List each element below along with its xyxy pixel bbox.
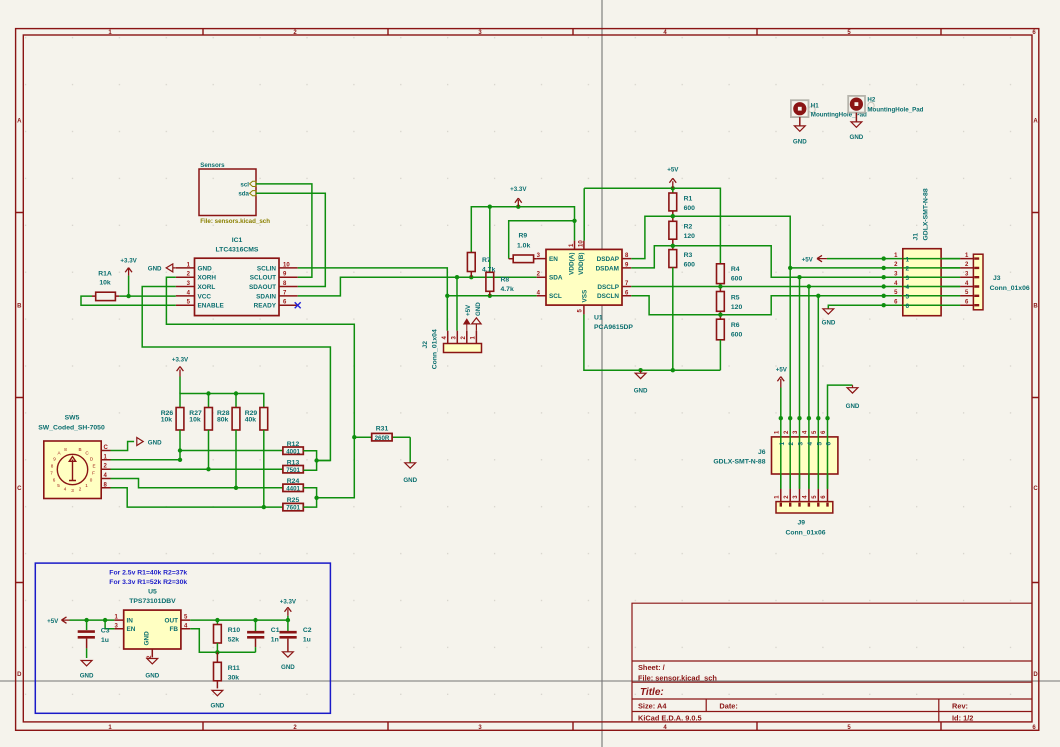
J1 pin numbers xyxy=(894,253,898,306)
connector J6 GDLX-SMT-N-88 body xyxy=(713,437,838,474)
resistor R28 xyxy=(217,408,240,488)
svg-text:GND: GND xyxy=(822,320,836,327)
svg-text:R13: R13 xyxy=(287,459,300,466)
ground GND below C2 xyxy=(281,652,295,671)
wire DSDAM net (U1 pin9 to J1 pin3 and J6 col3) xyxy=(631,246,960,489)
resistor R3 xyxy=(669,250,695,269)
svg-text:+3.3V: +3.3V xyxy=(172,357,189,364)
svg-text:4.7k: 4.7k xyxy=(501,286,514,293)
resistor R7 xyxy=(467,253,495,278)
svg-text:52k: 52k xyxy=(228,636,240,643)
wire rows through J1 body to J3 xyxy=(903,259,960,306)
svg-text:PCA9615DP: PCA9615DP xyxy=(594,324,633,331)
svg-text:SCLOUT: SCLOUT xyxy=(250,275,276,282)
svg-text:Conn_01x06: Conn_01x06 xyxy=(990,285,1030,292)
U5 pin numbers xyxy=(114,615,188,659)
svg-text:EN: EN xyxy=(549,256,558,263)
svg-text:scl: scl xyxy=(240,181,249,188)
svg-text:R3: R3 xyxy=(684,252,693,259)
svg-text:DSDAP: DSDAP xyxy=(597,256,620,263)
svg-text:R24: R24 xyxy=(287,478,300,485)
wire R1A left to ENABLE xyxy=(81,296,176,305)
U1 bottom pin stub VSS xyxy=(583,305,585,314)
regulator U5 TPS73101DBV body xyxy=(124,588,181,649)
svg-text:R5: R5 xyxy=(731,294,740,301)
wire R6 bottom xyxy=(719,340,721,370)
IC U1 PCA9615DP body xyxy=(546,249,633,330)
svg-text:1: 1 xyxy=(85,483,88,488)
svg-text:H2: H2 xyxy=(867,97,875,104)
svg-text:GND: GND xyxy=(403,477,417,484)
SW5 rotary ring letters xyxy=(50,447,95,493)
wire SDAIN net (IC1 pin7 to U1 SDA and J2 pin3) xyxy=(298,277,537,331)
junction R26/R12 xyxy=(178,448,182,452)
ground GND below R11 xyxy=(211,690,225,709)
J3 pin numbers xyxy=(965,253,969,306)
junction dots at J1 pins xyxy=(882,256,886,260)
wire U5 OUT rail xyxy=(190,619,288,621)
H1 pin stub and GND xyxy=(793,117,807,145)
resistor R6 xyxy=(717,319,743,340)
capacitor C3 xyxy=(78,620,110,658)
svg-text:+5V: +5V xyxy=(465,304,472,316)
svg-text:E: E xyxy=(92,464,95,469)
svg-text:IC1: IC1 xyxy=(232,237,243,244)
svg-text:J1: J1 xyxy=(913,233,920,241)
svg-text:10k: 10k xyxy=(161,416,173,423)
resistor R9 xyxy=(509,233,537,263)
J6 pin numbers (rotated) xyxy=(775,430,828,434)
svg-text:SW5: SW5 xyxy=(65,415,80,422)
wire SW5 pin1 to R26 xyxy=(111,459,181,461)
gray axis vertical xyxy=(601,0,603,747)
svg-text:R25: R25 xyxy=(287,497,300,504)
svg-text:1n: 1n xyxy=(271,636,279,643)
wire columns through J6 body to J9 xyxy=(781,436,828,489)
svg-text:LTC4316CMS: LTC4316CMS xyxy=(216,247,259,254)
ground GND at J1 pin6 xyxy=(822,309,836,327)
svg-text:R1: R1 xyxy=(684,195,693,202)
junction at R1A/+3.3V xyxy=(126,294,130,298)
svg-text:VDD(B): VDD(B) xyxy=(578,253,585,275)
svg-text:4401: 4401 xyxy=(286,485,300,492)
U1 pin numbers xyxy=(537,240,629,313)
junction R31 branch xyxy=(352,435,356,439)
resistor R4 xyxy=(717,264,743,292)
svg-text:H1: H1 xyxy=(811,103,819,110)
svg-text:1u: 1u xyxy=(101,637,109,644)
svg-text:For 2.5v R1=40k R2=37k: For 2.5v R1=40k R2=37k xyxy=(109,570,187,577)
ground GND at J2 pin1 (up arrow) xyxy=(472,302,482,331)
svg-text:1: 1 xyxy=(906,256,910,263)
svg-text:IN: IN xyxy=(127,618,134,625)
ground GND below U1 xyxy=(634,370,648,394)
power +3.3V at regulator output xyxy=(280,599,297,621)
svg-text:GND: GND xyxy=(80,673,94,680)
mounting hole H1 xyxy=(791,100,867,118)
svg-text:4: 4 xyxy=(906,284,910,291)
svg-text:OUT: OUT xyxy=(165,618,179,625)
svg-text:4001: 4001 xyxy=(286,448,300,455)
svg-text:30k: 30k xyxy=(228,674,240,681)
svg-text:U5: U5 xyxy=(148,588,157,595)
svg-text:FB: FB xyxy=(169,626,178,633)
power +3.3V above R26 xyxy=(172,357,189,394)
svg-text:GDLX-SMT-N-88: GDLX-SMT-N-88 xyxy=(713,458,765,465)
svg-text:10: 10 xyxy=(579,240,585,247)
svg-text:GND: GND xyxy=(148,439,162,446)
svg-text:D: D xyxy=(1033,672,1038,678)
svg-text:For 3.3v R1=52k R2=30k: For 3.3v R1=52k R2=30k xyxy=(109,579,187,586)
wire R1A right to VCC xyxy=(119,295,176,297)
svg-text:8: 8 xyxy=(64,447,67,452)
svg-text:F: F xyxy=(92,471,95,476)
svg-text:C2: C2 xyxy=(303,627,312,634)
svg-text:R31: R31 xyxy=(376,426,389,433)
op-amp IC1 LTC4316CMS body xyxy=(195,237,280,316)
svg-text:Date:: Date: xyxy=(719,702,737,711)
resistor R1A xyxy=(92,270,119,300)
svg-text:10k: 10k xyxy=(99,279,111,286)
power +3.3V at IC1 xyxy=(120,257,137,296)
resistor R24 xyxy=(283,478,303,493)
svg-text:Id: 1/2: Id: 1/2 xyxy=(952,714,973,723)
svg-text:SDAIN: SDAIN xyxy=(256,293,276,300)
svg-text:3: 3 xyxy=(906,275,910,282)
svg-text:XORH: XORH xyxy=(198,275,217,282)
svg-text:R12: R12 xyxy=(287,441,300,448)
svg-text:GND: GND xyxy=(634,388,648,395)
wire DSDAP net (U1 pin8 to J1 pin2 and J6 col2) xyxy=(631,216,960,489)
power +5V at J2 pin2 xyxy=(464,304,472,331)
svg-text:10k: 10k xyxy=(189,416,201,423)
wire GND to J6 col6 xyxy=(828,385,853,489)
svg-text:+5V: +5V xyxy=(802,257,814,264)
svg-text:ENABLE: ENABLE xyxy=(198,303,225,310)
wire R12/R13 right join xyxy=(303,451,330,471)
svg-text:2: 2 xyxy=(79,487,82,492)
sheet pin sda xyxy=(238,191,256,198)
wire +5V to U5 IN xyxy=(70,619,115,621)
U1 pin names xyxy=(549,253,620,303)
SW5 right pin stubs xyxy=(101,451,110,488)
svg-text:4: 4 xyxy=(64,487,67,492)
svg-text:8: 8 xyxy=(51,464,54,469)
svg-text:Rev:: Rev: xyxy=(952,702,968,711)
SW5 pin labels xyxy=(104,445,109,488)
title block xyxy=(632,603,1032,722)
svg-text:B: B xyxy=(78,447,81,452)
svg-text:4: 4 xyxy=(807,442,814,446)
svg-text:File: sensors.kicad_sch: File: sensors.kicad_sch xyxy=(200,218,270,225)
svg-text:SCL: SCL xyxy=(549,293,562,300)
IC1 pin numbers xyxy=(187,262,191,305)
H2 pin stub and GND xyxy=(850,113,864,141)
svg-text:Size: A4: Size: A4 xyxy=(638,702,667,711)
svg-text:10: 10 xyxy=(283,262,290,268)
no-connect X at IC1 pin 6 xyxy=(295,302,301,308)
switch SW5 SW_Coded_SH-7050 xyxy=(38,415,105,499)
wire XORH to R24/R25 junction xyxy=(166,277,354,498)
svg-text:R1A: R1A xyxy=(98,270,112,277)
svg-text:0: 0 xyxy=(90,478,93,483)
resistor R11 xyxy=(214,652,241,688)
wire SW5 pin2 to R13 xyxy=(111,468,283,470)
wire +3.3V rail above R26-R29 xyxy=(180,394,264,408)
svg-text:6: 6 xyxy=(53,478,56,483)
svg-text:9: 9 xyxy=(53,457,56,462)
J6 pin names (rotated) xyxy=(779,442,833,446)
svg-text:GND: GND xyxy=(144,631,151,646)
ground GND below U5 pin2 xyxy=(145,659,159,680)
ground GND arrow right at SW5 xyxy=(137,438,162,447)
svg-text:XORL: XORL xyxy=(198,284,216,291)
wire VSS ground rail xyxy=(584,314,721,370)
power +3.3V above U1 xyxy=(510,186,527,207)
svg-text:Sheet: /: Sheet: / xyxy=(638,663,665,672)
resistor R27 xyxy=(189,408,212,470)
hierarchical sheet Sensors xyxy=(199,162,270,225)
svg-text:DSCLN: DSCLN xyxy=(597,293,619,300)
svg-text:+3.3V: +3.3V xyxy=(510,186,527,193)
resistor R10 xyxy=(214,620,241,652)
U1 right pin stubs xyxy=(622,259,631,296)
svg-text:7: 7 xyxy=(50,471,53,476)
svg-text:1u: 1u xyxy=(303,636,311,643)
svg-text:120: 120 xyxy=(684,233,696,240)
svg-text:GND: GND xyxy=(211,703,225,710)
connector J9 Conn_01x06 body xyxy=(776,489,833,537)
svg-text:C: C xyxy=(104,445,109,451)
svg-text:C1: C1 xyxy=(271,627,280,634)
U1 top pin stubs xyxy=(575,241,584,250)
svg-text:VCC: VCC xyxy=(198,293,212,300)
svg-text:1.0k: 1.0k xyxy=(517,242,530,249)
svg-text:600: 600 xyxy=(684,205,696,212)
svg-text:Title:: Title: xyxy=(640,687,664,698)
svg-text:Conn_01x04: Conn_01x04 xyxy=(432,329,439,369)
svg-text:600: 600 xyxy=(731,332,743,339)
IC1 left pin stubs 1-5 xyxy=(176,268,195,305)
svg-text:GDLX-SMT-N-88: GDLX-SMT-N-88 xyxy=(923,188,930,240)
capacitor C1 xyxy=(247,620,280,652)
wire +5V to J6 col1 xyxy=(780,388,782,489)
capacitor C2 xyxy=(280,620,312,652)
svg-text:R10: R10 xyxy=(228,627,241,634)
svg-text:GND: GND xyxy=(198,265,213,272)
wire +5V to J1 pin1 xyxy=(827,258,960,260)
svg-text:80k: 80k xyxy=(217,416,229,423)
wire +5V rail above R1/R4 to U1 VDD(B) xyxy=(584,188,720,263)
wire SCLIN net (IC1 pin10 to U1 SCL and J2 pin4) xyxy=(298,268,537,331)
resistor R31 xyxy=(354,426,410,442)
svg-text:600: 600 xyxy=(684,261,696,268)
svg-text:SW_Coded_SH-7050: SW_Coded_SH-7050 xyxy=(38,424,105,431)
resistor R2 xyxy=(669,221,695,249)
U5 pin names xyxy=(127,618,179,646)
svg-text:R8: R8 xyxy=(501,276,510,283)
IC1 right pin stubs 10-6 xyxy=(279,268,298,305)
wire SW5 pin8 to R25 xyxy=(111,488,283,507)
svg-text:R11: R11 xyxy=(228,665,240,672)
svg-text:5: 5 xyxy=(57,483,60,488)
svg-text:3: 3 xyxy=(71,488,74,493)
svg-text:A: A xyxy=(1033,119,1038,125)
svg-text:GND: GND xyxy=(793,139,807,146)
svg-text:GND: GND xyxy=(475,302,482,316)
resistor R29 xyxy=(245,408,268,508)
wire R26/R12 row xyxy=(180,450,283,452)
svg-text:R4: R4 xyxy=(731,266,740,273)
U1 left pin stubs xyxy=(537,259,546,296)
connector J3 Conn_01x06 body xyxy=(960,254,1030,310)
svg-text:VSS: VSS xyxy=(582,289,589,303)
svg-text:5: 5 xyxy=(816,442,823,446)
wire R31 right to GND xyxy=(409,437,411,462)
svg-text:EN: EN xyxy=(127,626,136,633)
svg-text:B: B xyxy=(1033,304,1038,310)
ground GND at IC1 pin1 xyxy=(148,264,176,273)
ground GND below R31 xyxy=(403,463,417,484)
svg-text:GND: GND xyxy=(846,403,860,410)
svg-text:MountingHole_Pad: MountingHole_Pad xyxy=(867,107,923,114)
resistor R12 xyxy=(283,441,303,456)
svg-text:C: C xyxy=(17,486,22,492)
wire scl (sheet to IC1 SCLOUT) xyxy=(256,184,312,277)
svg-text:B: B xyxy=(17,304,22,310)
resistor R8 xyxy=(486,272,514,296)
power label +5V left arrow xyxy=(47,617,69,625)
wire DSCLN net (U1 pin6 to J1 pin5 and J6 col5) xyxy=(631,296,960,489)
svg-text:U1: U1 xyxy=(594,315,603,322)
svg-text:C3: C3 xyxy=(101,627,110,634)
svg-text:2: 2 xyxy=(906,266,910,273)
svg-text:GND: GND xyxy=(281,664,295,671)
power +5V above J6 xyxy=(776,367,788,388)
mounting hole H2 xyxy=(848,96,923,114)
resistor R5 xyxy=(717,292,743,320)
wire SW5 pinC to GND xyxy=(111,442,135,451)
svg-text:A: A xyxy=(17,119,22,125)
svg-text:Conn_01x06: Conn_01x06 xyxy=(785,530,825,537)
svg-text:6: 6 xyxy=(906,303,910,310)
svg-text:SDA: SDA xyxy=(549,275,563,282)
wire SW5 pin4 to R24 xyxy=(111,479,283,488)
svg-text:C: C xyxy=(1033,486,1038,492)
wire FB feedback xyxy=(190,629,255,653)
svg-text:TPS73101DBV: TPS73101DBV xyxy=(129,598,176,605)
J9 pin numbers (rotated) xyxy=(775,495,828,499)
wire sda (sheet to IC1 SDAOUT) xyxy=(256,193,325,286)
svg-text:sda: sda xyxy=(238,191,249,198)
svg-text:+3.3V: +3.3V xyxy=(280,599,297,606)
resistor R26 xyxy=(161,408,184,460)
svg-text:J9: J9 xyxy=(798,520,806,527)
connector J1 GDLX-SMT-N-88 body xyxy=(903,188,941,316)
svg-text:+5V: +5V xyxy=(47,618,59,625)
svg-text:R7: R7 xyxy=(482,257,491,264)
svg-text:DSDAM: DSDAM xyxy=(596,265,619,272)
power label +5V left arrow at J1 pin1 xyxy=(802,255,827,263)
power +5V above R1 xyxy=(667,167,679,189)
junction SCL xyxy=(445,294,449,298)
svg-text:7601: 7601 xyxy=(286,505,300,512)
svg-text:J2: J2 xyxy=(422,341,429,349)
svg-text:3: 3 xyxy=(798,442,805,446)
junction SDA xyxy=(455,275,459,279)
svg-text:120: 120 xyxy=(731,304,743,311)
U5 pin stubs xyxy=(114,620,190,657)
svg-text:+5V: +5V xyxy=(776,367,788,374)
svg-text:40k: 40k xyxy=(245,416,257,423)
svg-text:2: 2 xyxy=(788,442,795,446)
svg-text:SCLIN: SCLIN xyxy=(257,265,277,272)
sheet pin scl xyxy=(240,181,256,188)
svg-text:GND: GND xyxy=(148,266,162,273)
svg-text:D: D xyxy=(17,672,22,678)
svg-text:SDAOUT: SDAOUT xyxy=(249,284,276,291)
J1 pin names xyxy=(906,256,910,310)
wire DSCLP net (U1 pin7 to J1 pin4 and J6 col4) xyxy=(631,287,960,489)
svg-text:Sensors: Sensors xyxy=(200,162,225,169)
svg-text:1: 1 xyxy=(779,442,786,446)
wire J1 pin6 to GND xyxy=(828,305,960,309)
svg-text:J3: J3 xyxy=(993,275,1001,282)
svg-text:600: 600 xyxy=(731,276,743,283)
svg-text:R9: R9 xyxy=(519,233,528,240)
svg-text:5: 5 xyxy=(906,294,910,301)
svg-text:DSCLP: DSCLP xyxy=(597,284,619,291)
svg-text:260R: 260R xyxy=(375,435,390,442)
gray axis horizontal xyxy=(0,680,1060,682)
wire EN tie xyxy=(105,620,114,629)
IC1 pin names xyxy=(198,265,225,309)
blue graphic box around regulator xyxy=(35,563,330,713)
wire R3 bottom to GND rail xyxy=(672,268,674,371)
resistor R1 xyxy=(669,193,695,221)
resistor R25 xyxy=(283,497,303,512)
svg-text:File: sensor.kicad_sch: File: sensor.kicad_sch xyxy=(638,674,717,683)
svg-text:READY: READY xyxy=(254,303,277,310)
svg-text:J6: J6 xyxy=(758,449,766,456)
ground GND below C3 xyxy=(80,661,94,680)
svg-text:GND: GND xyxy=(145,673,159,680)
svg-text:R2: R2 xyxy=(684,224,693,231)
ground GND right of J6 xyxy=(846,385,860,410)
connector J2 Conn_01x04 xyxy=(422,329,482,369)
svg-text:R6: R6 xyxy=(731,322,740,329)
svg-text:6: 6 xyxy=(826,442,833,446)
wire +3.3V rail above U1 xyxy=(471,207,574,273)
svg-text:KiCad E.D.A. 9.0.5: KiCad E.D.A. 9.0.5 xyxy=(638,714,702,723)
svg-text:VDD(A): VDD(A) xyxy=(569,253,576,275)
resistor R13 xyxy=(283,459,303,474)
svg-text:+3.3V: +3.3V xyxy=(120,257,137,264)
wire XORL to R12/R13 junction xyxy=(142,287,330,461)
svg-text:GND: GND xyxy=(850,134,864,141)
svg-text:+5V: +5V xyxy=(667,167,679,174)
wire R24/R25 right join xyxy=(303,488,354,507)
svg-text:7501: 7501 xyxy=(286,467,300,474)
